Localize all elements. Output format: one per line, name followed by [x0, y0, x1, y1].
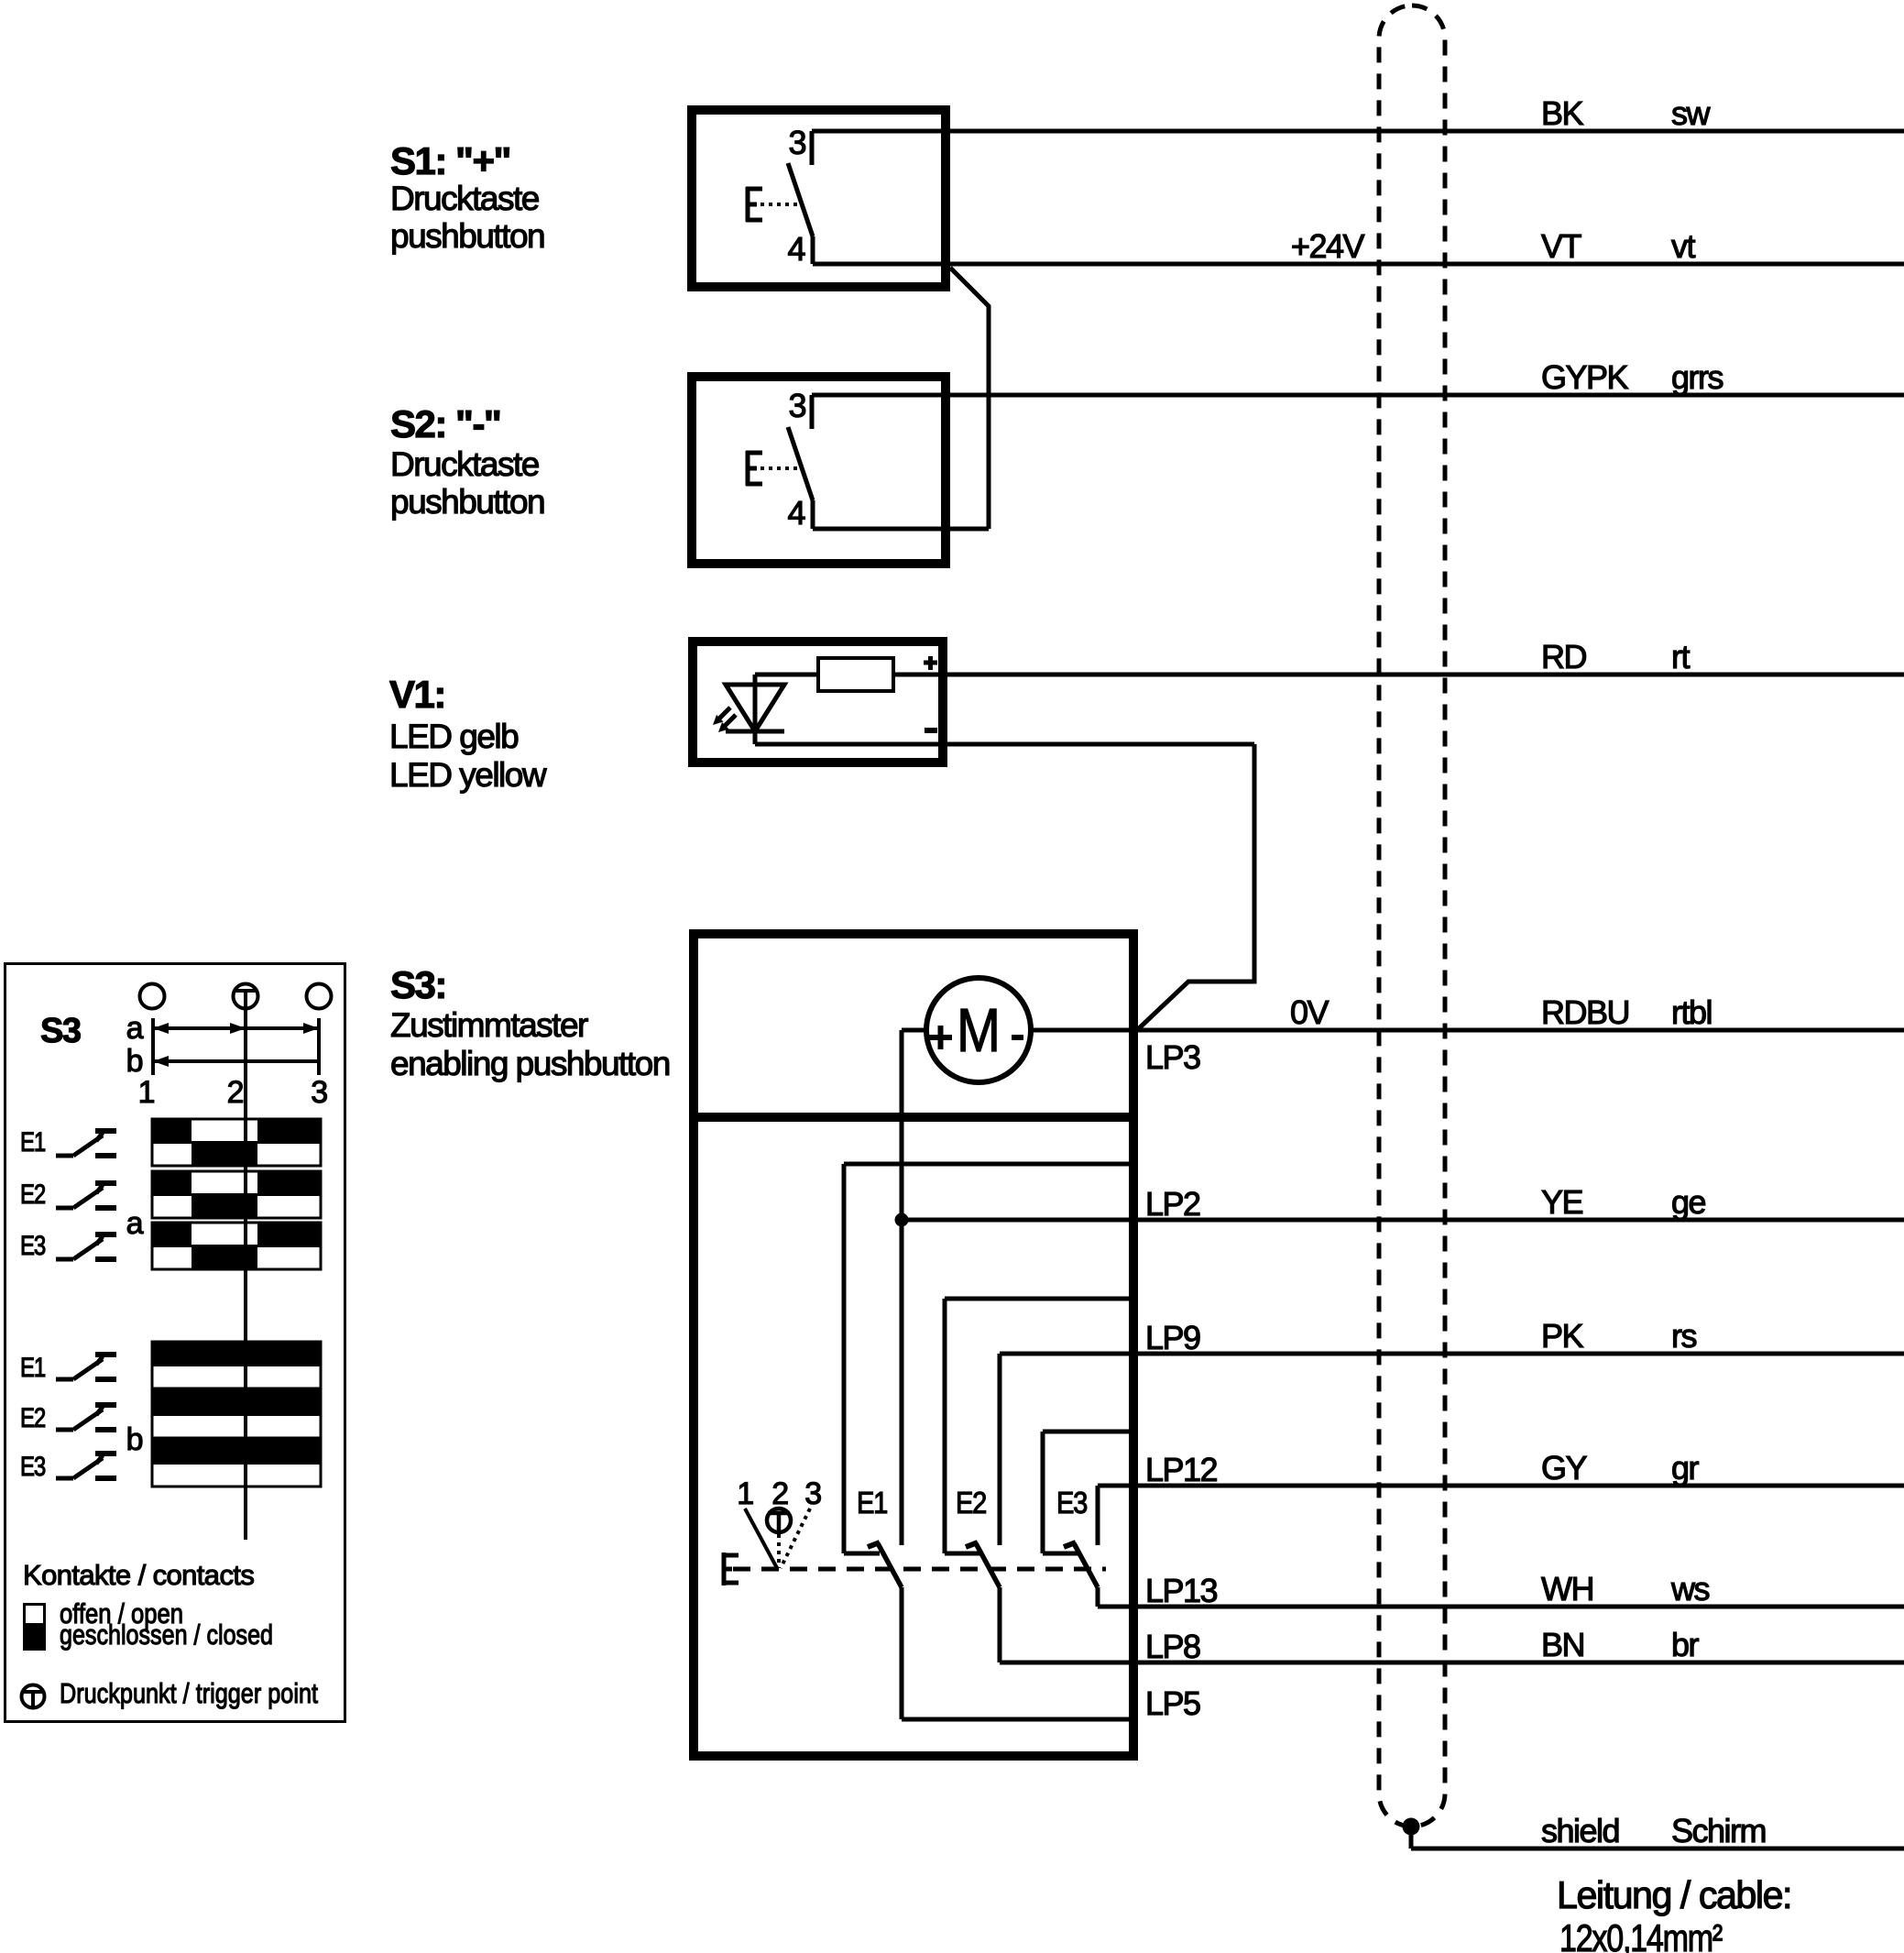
svg-text:S3: S3	[40, 1012, 81, 1050]
svg-text:E3: E3	[1056, 1486, 1087, 1520]
svg-text:LP13: LP13	[1145, 1572, 1218, 1609]
svg-text:E2: E2	[956, 1486, 986, 1520]
svg-text:sw: sw	[1671, 94, 1712, 132]
svg-text:rtbl: rtbl	[1671, 993, 1712, 1031]
svg-text:LP3: LP3	[1145, 1038, 1200, 1076]
svg-text:S2: "-": S2: "-"	[390, 402, 500, 445]
svg-text:pushbutton: pushbutton	[390, 483, 544, 521]
svg-text:BN: BN	[1541, 1626, 1584, 1663]
svg-text:LP8: LP8	[1145, 1628, 1200, 1665]
svg-text:Schirm: Schirm	[1671, 1812, 1766, 1849]
svg-text:V1:: V1:	[389, 673, 445, 716]
svg-text:3: 3	[788, 387, 805, 424]
svg-text:LP9: LP9	[1145, 1319, 1200, 1356]
svg-text:0V: 0V	[1290, 993, 1330, 1031]
svg-text:Leitung / cable:: Leitung / cable:	[1557, 1873, 1791, 1916]
svg-text:GY: GY	[1541, 1449, 1588, 1487]
svg-text:gr: gr	[1671, 1449, 1700, 1487]
svg-text:+24V: +24V	[1291, 227, 1365, 265]
svg-text:4: 4	[787, 494, 804, 532]
svg-text:1: 1	[138, 1075, 155, 1110]
svg-text:geschlossen / closed: geschlossen / closed	[60, 1618, 273, 1651]
svg-text:LED yellow: LED yellow	[389, 756, 547, 794]
svg-text:LED gelb: LED gelb	[389, 718, 519, 755]
svg-text:GYPK: GYPK	[1541, 358, 1629, 396]
svg-text:4: 4	[787, 230, 804, 268]
svg-text:LP12: LP12	[1145, 1451, 1218, 1488]
svg-text:2: 2	[771, 1476, 788, 1511]
svg-text:RDBU: RDBU	[1541, 993, 1629, 1031]
svg-text:E1: E1	[20, 1127, 46, 1158]
svg-text:M: M	[957, 996, 1001, 1065]
svg-text:RD: RD	[1541, 638, 1586, 675]
svg-text:WH: WH	[1541, 1570, 1593, 1607]
svg-text:enabling pushbutton: enabling pushbutton	[390, 1045, 670, 1082]
svg-text:Zustimmtaster: Zustimmtaster	[390, 1006, 588, 1044]
svg-text:E2: E2	[20, 1179, 46, 1210]
svg-text:Drucktaste: Drucktaste	[390, 445, 539, 483]
svg-text:3: 3	[788, 124, 805, 161]
svg-text:Drucktaste: Drucktaste	[390, 180, 539, 217]
svg-text:br: br	[1671, 1626, 1700, 1663]
svg-text:E1: E1	[857, 1486, 887, 1520]
svg-text:E3: E3	[20, 1452, 46, 1482]
svg-text:a: a	[126, 1206, 144, 1241]
svg-text:rs: rs	[1671, 1317, 1696, 1355]
svg-text:3: 3	[311, 1075, 327, 1110]
svg-text:LP2: LP2	[1145, 1185, 1200, 1223]
svg-text:S1: "+": S1: "+"	[390, 139, 510, 182]
svg-text:a: a	[126, 1011, 144, 1046]
svg-text:PK: PK	[1541, 1317, 1584, 1355]
svg-text:rt: rt	[1671, 638, 1690, 675]
svg-text:E3: E3	[20, 1231, 46, 1261]
svg-text:b: b	[126, 1044, 143, 1079]
svg-text:S3:: S3:	[390, 963, 446, 1006]
svg-text:ge: ge	[1671, 1183, 1706, 1221]
svg-text:shield: shield	[1541, 1812, 1619, 1849]
svg-text:Druckpunkt / trigger point: Druckpunkt / trigger point	[60, 1677, 318, 1709]
svg-text:1: 1	[737, 1476, 753, 1511]
svg-text:2: 2	[227, 1075, 244, 1110]
svg-text:12x0,14mm²: 12x0,14mm²	[1559, 1916, 1723, 1953]
svg-text:3: 3	[804, 1476, 821, 1511]
svg-text:E1: E1	[20, 1353, 46, 1383]
svg-text:pushbutton: pushbutton	[390, 217, 544, 255]
svg-text:LP5: LP5	[1145, 1684, 1200, 1722]
svg-text:b: b	[126, 1422, 143, 1457]
svg-text:grrs: grrs	[1671, 358, 1723, 396]
svg-text:YE: YE	[1541, 1183, 1583, 1221]
svg-text:vt: vt	[1671, 227, 1696, 265]
svg-text:Kontakte / contacts: Kontakte / contacts	[23, 1559, 254, 1591]
svg-text:ws: ws	[1670, 1570, 1709, 1607]
svg-text:BK: BK	[1541, 94, 1584, 132]
svg-text:VT: VT	[1541, 227, 1582, 265]
svg-text:E2: E2	[20, 1403, 46, 1433]
